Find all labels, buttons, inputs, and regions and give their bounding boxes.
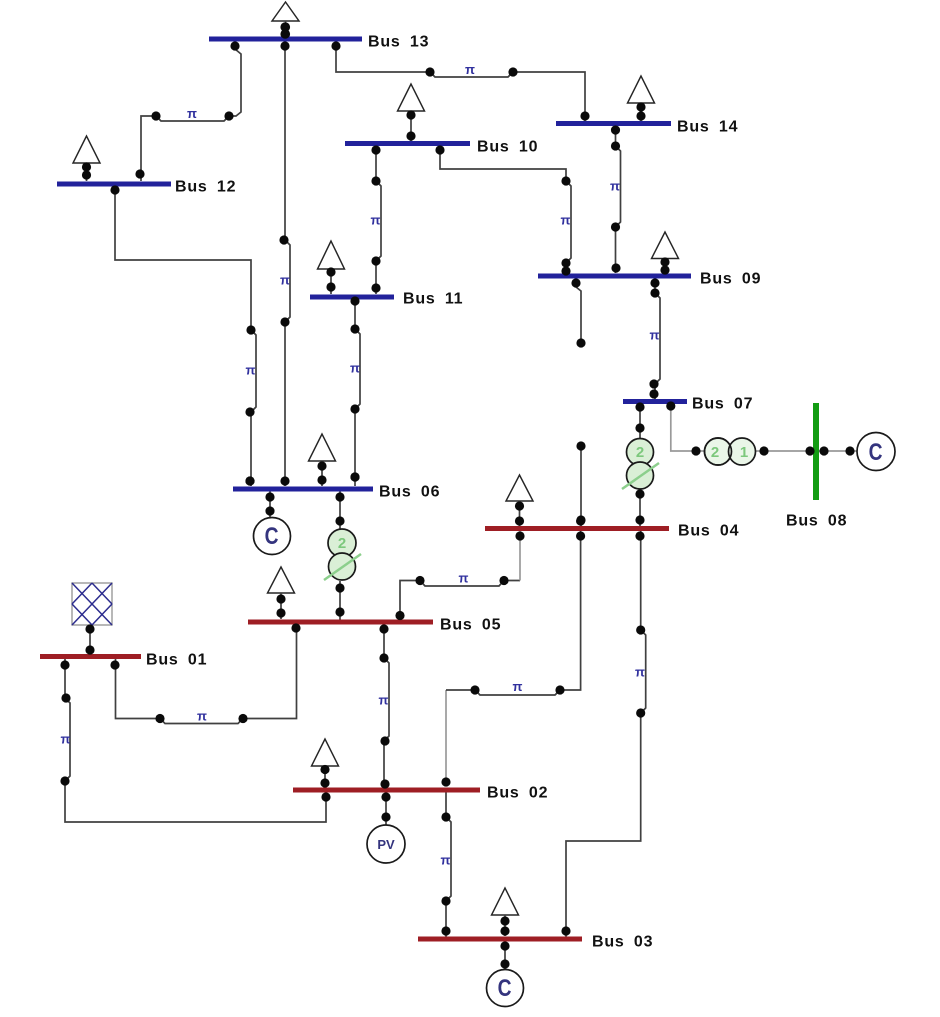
wire line Bus01-Bus05 — [116, 624, 297, 724]
svg-text:π: π — [465, 62, 475, 77]
bus Bus 07 bar — [623, 399, 687, 404]
load load at Bus 02 (triangle) — [312, 739, 339, 788]
junction dots generator C at Bus03 leads — [500, 941, 509, 968]
load load at Bus 12 (triangle) — [73, 136, 100, 181]
junction dots Bus 04 connections — [576, 516, 585, 525]
wire transformer Bus06-Bus05 lower lead — [339, 581, 341, 620]
junction dots line Bus04-Bus03 path — [561, 625, 645, 935]
wire line Bus05-Bus02 — [384, 624, 389, 788]
junction dots line Bus10-Bus09 path — [561, 176, 570, 275]
junction dots line Bus13-Bus14 path — [425, 67, 589, 120]
junction dots line Bus09-Bus07 path — [649, 379, 658, 398]
svg-text:Bus 12: Bus 12 — [175, 179, 236, 196]
svg-text:Bus 13: Bus 13 — [368, 34, 429, 51]
svg-text:2: 2 — [711, 444, 719, 461]
wire line Bus10-Bus11 — [376, 145, 381, 294]
junction dots Bus 11 connections — [350, 296, 359, 333]
bus Bus 09 bar — [538, 274, 691, 279]
junction dots Bus 07 connections — [635, 401, 675, 432]
svg-text:π: π — [650, 327, 660, 342]
wire generator C at Bus03 lead — [504, 941, 506, 970]
junction dots branch Bus07-Bus08 path — [691, 446, 854, 455]
svg-text:Bus 02: Bus 02 — [487, 785, 548, 802]
svg-text:Bus 08: Bus 08 — [786, 513, 847, 530]
junction dots Bus 05 connections — [379, 611, 404, 663]
junction dots Bus 06 connections — [245, 472, 359, 525]
wire line Bus09-Bus07 — [655, 278, 660, 399]
junction dots line Bus01-Bus02 path — [60, 693, 330, 801]
load load at Bus 03 (triangle) — [492, 888, 519, 936]
load load at Bus 11 (triangle) — [318, 241, 345, 294]
wire transformer Bus06-Bus05 leads — [339, 491, 341, 530]
junction dots transformer Bus07-Bus04 lower — [635, 489, 644, 540]
wire line Bus05-Bus04 main — [400, 581, 520, 620]
wire line Bus02-Bus04 stub — [445, 690, 447, 786]
svg-text:C: C — [869, 438, 883, 466]
junction dots line Bus13-Bus12 path — [135, 111, 233, 178]
junction dots Bus 14 connections — [611, 125, 620, 150]
bus Bus 12 bar — [57, 182, 171, 187]
transformer Bus07-Bus04 (2-winding, tap 2) — [622, 439, 659, 490]
svg-text:π: π — [246, 362, 256, 377]
wire line Bus13-Bus12 seg A — [141, 43, 241, 181]
bus Bus 02 bar — [293, 788, 480, 793]
wire line Bus02-Bus03 — [446, 792, 451, 937]
generator PV at Bus 02 — [367, 825, 405, 863]
svg-text:π: π — [280, 272, 290, 287]
junction dots line Bus05-Bus04 path — [415, 531, 524, 585]
svg-text:Bus 14: Bus 14 — [677, 119, 738, 136]
svg-text:π: π — [459, 570, 469, 585]
wire line Bus05-Bus04 stub to Bus04 — [519, 531, 521, 581]
svg-text:1: 1 — [740, 444, 748, 461]
wire line Bus02-Bus04 main — [446, 531, 581, 695]
junction dots line Bus10-Bus11 path — [371, 176, 380, 292]
wire line Bus13-Bus14 — [336, 41, 585, 121]
wire line Bus13-Bus06 — [285, 41, 290, 486]
svg-text:π: π — [635, 664, 645, 679]
wire open branch Bus04 stub lower — [580, 446, 582, 526]
wire branch Bus07-Bus08 lead — [671, 404, 705, 451]
svg-text:π: π — [197, 708, 207, 723]
svg-text:π: π — [610, 178, 620, 193]
wire branch Bus08 wire right — [816, 450, 858, 452]
junction dots Bus 10 connections — [371, 145, 444, 154]
junction dots line Bus12-Bus06 path — [245, 325, 255, 485]
wire transformer Bus07-Bus04 leads — [639, 404, 641, 440]
svg-text:π: π — [61, 731, 71, 746]
wire open branch Bus09 stub upper — [576, 278, 581, 343]
load load at Bus 09 (triangle) — [652, 232, 679, 275]
svg-text:C: C — [498, 974, 512, 1002]
wire generator C at Bus06 lead — [269, 491, 271, 518]
svg-text:Bus 03: Bus 03 — [592, 934, 653, 951]
svg-text:PV: PV — [377, 837, 395, 852]
svg-text:Bus 09: Bus 09 — [700, 271, 761, 288]
load load at Bus 06 (triangle) — [309, 434, 336, 486]
bus Bus 03 bar — [418, 937, 582, 942]
junction dots line Bus14-Bus09 path — [611, 222, 621, 272]
load load at Bus 04 (triangle) — [506, 475, 533, 526]
svg-text:2: 2 — [636, 444, 644, 461]
svg-text:Bus 10: Bus 10 — [477, 139, 538, 156]
junction dots line Bus13-Bus06 path — [279, 235, 289, 485]
junction dots line Bus01-Bus05 path — [155, 623, 300, 723]
svg-text:π: π — [371, 212, 381, 227]
bus Bus 08 bar — [813, 403, 819, 500]
bus Bus 01 bar — [40, 654, 141, 659]
svg-text:Bus 07: Bus 07 — [692, 396, 753, 413]
load load at Bus 05 (triangle) — [268, 567, 295, 619]
wire line Bus11-Bus06 — [355, 299, 360, 486]
bus Bus 06 bar — [233, 487, 373, 492]
load load at Bus 13 (triangle) — [272, 2, 299, 39]
bus Bus 04 bar — [485, 526, 669, 531]
transformer Bus07-Bus08 (2-winding, windings 2/1) — [705, 438, 756, 465]
wire line Bus12-Bus06 — [115, 186, 256, 486]
svg-text:π: π — [187, 106, 197, 121]
junction dots Bus 02 connections — [380, 736, 450, 821]
svg-text:2: 2 — [338, 535, 346, 552]
svg-text:Bus 01: Bus 01 — [146, 652, 207, 669]
junction dots line Bus11-Bus06 path — [350, 404, 359, 481]
svg-text:π: π — [513, 679, 523, 694]
bus Bus 13 bar — [209, 37, 362, 42]
bus Bus 11 bar — [310, 295, 394, 300]
load load at Bus 14 (triangle) — [628, 76, 655, 121]
svg-text:Bus 06: Bus 06 — [379, 484, 440, 501]
junction dots Bus 13 connections — [230, 22, 340, 50]
junction dots transformer Bus06-Bus05 lower — [335, 583, 344, 616]
svg-text:Bus 11: Bus 11 — [403, 291, 463, 308]
wire external grid lead — [89, 625, 91, 654]
wire generator PV at Bus02 lead — [385, 792, 387, 826]
junction dots open branch stub ends — [576, 338, 585, 524]
junction dots line Bus02-Bus03 path — [441, 896, 450, 935]
wire line Bus10-Bus09 — [440, 145, 571, 273]
bus Bus 05 bar — [248, 620, 433, 625]
svg-text:π: π — [350, 360, 360, 375]
wire line Bus01-Bus02 — [65, 659, 326, 822]
svg-text:Bus 04: Bus 04 — [678, 523, 739, 540]
generator C (synchronous condenser) at Bus 03 — [487, 970, 524, 1007]
bus Bus 10 bar — [345, 141, 470, 146]
generator C (synchronous condenser) at Bus 06 — [254, 518, 291, 555]
wire transformer Bus07-Bus04 lower lead — [639, 489, 641, 526]
svg-text:π: π — [561, 212, 571, 227]
svg-text:Bus 05: Bus 05 — [440, 617, 501, 634]
wire branch Bus08 wire left — [755, 450, 816, 452]
svg-text:C: C — [265, 522, 279, 550]
wire line Bus04-Bus03 — [566, 531, 646, 937]
svg-text:π: π — [441, 852, 451, 867]
junction dots line Bus02-Bus04 path — [470, 531, 585, 694]
junction dots Bus 12 connections — [110, 185, 119, 194]
junction dots Bus 01 connections — [60, 624, 119, 669]
junction dots Bus 09 connections — [571, 278, 659, 297]
wire line Bus14-Bus09 — [616, 126, 621, 273]
generator C (synchronous condenser) at Bus 08 — [857, 433, 895, 471]
load load at Bus 10 (triangle) — [398, 84, 425, 141]
bus Bus 14 bar — [556, 121, 671, 126]
transformer Bus06-Bus05 (2-winding, tap 2) — [324, 529, 361, 580]
svg-text:π: π — [379, 692, 389, 707]
external grid symbol at Bus 01 — [72, 583, 112, 625]
